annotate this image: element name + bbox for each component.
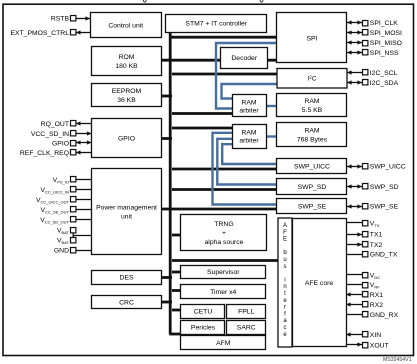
- svg-text:SWP_UICC: SWP_UICC: [370, 163, 406, 170]
- block EEPROM 36 KB: [92, 84, 162, 107]
- svg-text:SPI_MOSI: SPI_MOSI: [370, 30, 402, 37]
- pin RQ_OUT: [76, 123, 92, 125]
- wire bus to RAM arbiter 2: [172, 127, 232, 130]
- svg-text:i: i: [284, 277, 285, 283]
- svg-text:RX2: RX2: [370, 302, 383, 309]
- svg-text:GND_RX: GND_RX: [370, 312, 399, 319]
- svg-text:VRF: VRF: [370, 282, 380, 290]
- svg-text:Timer x4: Timer x4: [210, 289, 236, 296]
- block CRC: [92, 296, 162, 309]
- svg-text:FPLL: FPLL: [238, 309, 254, 316]
- svg-text:RAM: RAM: [304, 98, 319, 105]
- block CETU: [181, 305, 225, 319]
- pin GND left: [76, 250, 92, 252]
- block RAM arbiter 2: [233, 125, 267, 149]
- svg-text:RSTB: RSTB: [51, 15, 70, 22]
- svg-text:Supervisor: Supervisor: [207, 269, 240, 276]
- wire blue RAM arbiter 2 to SWP_SD: [217, 139, 277, 185]
- svg-text:r: r: [284, 305, 286, 311]
- pin EXT_PMOS_CTRL: [76, 32, 90, 34]
- pin SPI_MOSI: [347, 32, 362, 34]
- block SARC: [227, 321, 266, 335]
- pin GPIO: [76, 142, 92, 144]
- svg-text:VCC_SD_OUT: VCC_SD_OUT: [40, 217, 69, 225]
- svg-text:TRNG: TRNG: [214, 221, 233, 228]
- svg-text:SWP_SE: SWP_SE: [298, 204, 327, 211]
- svg-text:REF_CLK_REQ: REF_CLK_REQ: [20, 150, 69, 157]
- svg-text:I2C_SCL: I2C_SCL: [370, 70, 398, 77]
- block Decoder: [221, 48, 268, 69]
- svg-text:c: c: [284, 325, 287, 331]
- wire blue RAM arbiter 2 to RAM 768B: [266, 135, 277, 137]
- svg-text:RAM: RAM: [304, 128, 319, 135]
- wire PMU to bus to SWP_SE: [162, 208, 278, 211]
- svg-text:SWP_SD: SWP_SD: [298, 184, 327, 191]
- pin REF_CLK_REQ: [76, 152, 92, 154]
- svg-text:SWP_UICC: SWP_UICC: [294, 163, 330, 170]
- svg-text:GND_TX: GND_TX: [370, 252, 398, 259]
- svg-text:I2C_SDA: I2C_SDA: [370, 80, 399, 87]
- pin I2C_SCL: [347, 72, 362, 74]
- svg-text:XIN: XIN: [370, 332, 381, 339]
- wire bus to CETU: [172, 309, 181, 312]
- svg-text:180 KB: 180 KB: [115, 63, 138, 70]
- svg-text:MS32454V1: MS32454V1: [383, 357, 412, 363]
- pin VCC_UICC_OUT: [76, 199, 92, 201]
- pin VCC_SE_OUT: [76, 209, 92, 211]
- pin XOUT: [346, 344, 362, 346]
- clipped title text remnant left: [143, 0, 146, 2]
- block SPI: [277, 13, 347, 63]
- pin SPI_CLK: [347, 22, 362, 24]
- wire bus to Timer x4: [172, 289, 181, 292]
- block Supervisor: [181, 266, 266, 279]
- svg-text:SPI_NSS: SPI_NSS: [370, 50, 399, 57]
- pin VRF: [346, 284, 362, 286]
- svg-text:u: u: [283, 257, 286, 263]
- svg-text:5.5 KB: 5.5 KB: [302, 107, 323, 114]
- svg-text:VPS_IO: VPS_IO: [53, 177, 69, 185]
- svg-text:VDC: VDC: [370, 272, 380, 280]
- svg-text:36 KB: 36 KB: [117, 97, 136, 104]
- wire bus to SWP_UICC: [172, 168, 277, 171]
- svg-text:768 Bytes: 768 Bytes: [297, 137, 328, 144]
- pin RSTB: [76, 18, 90, 20]
- svg-text:ROM: ROM: [119, 54, 135, 61]
- wire main vertical bus: [169, 32, 172, 334]
- svg-text:SPI_CLK: SPI_CLK: [370, 20, 398, 27]
- block ROM 180 KB: [92, 47, 162, 76]
- svg-text:EEPROM: EEPROM: [112, 88, 142, 95]
- pin TX2: [346, 244, 362, 246]
- wire blue RAM arbiter 2 to SWP_SE: [213, 133, 278, 205]
- svg-text:F: F: [283, 230, 287, 236]
- pin RX2: [346, 304, 362, 306]
- svg-text:AFE core: AFE core: [305, 280, 334, 287]
- svg-text:CRC: CRC: [119, 300, 134, 307]
- block SWP_SD: [277, 179, 347, 195]
- clipped title text remnant right: [260, 0, 263, 2]
- pin SPI_NSS: [347, 52, 362, 54]
- pin VCC_UICC_IN: [76, 189, 92, 191]
- svg-text:VCC_SE_OUT: VCC_SE_OUT: [40, 207, 69, 215]
- wire bus to SWP_SD: [172, 188, 277, 191]
- svg-text:VTX: VTX: [370, 220, 380, 228]
- svg-text:XOUT: XOUT: [370, 342, 389, 349]
- block TRNG + alpha source: [181, 215, 267, 251]
- wire GPIO stub: [162, 137, 173, 140]
- svg-text:alpha source: alpha source: [205, 239, 244, 246]
- svg-text:I2C: I2C: [307, 74, 316, 82]
- svg-text:Pericles: Pericles: [191, 324, 216, 331]
- wire ROM to Decoder to SPI: [162, 59, 278, 62]
- pin VBAT 2: [71, 238, 76, 243]
- block GPIO: [92, 119, 162, 158]
- pin VPS_IO: [76, 179, 92, 181]
- svg-text:CETU: CETU: [194, 309, 213, 316]
- pin SWP_UICC: [347, 166, 362, 168]
- svg-text:E: E: [283, 237, 287, 243]
- svg-text:RAM: RAM: [241, 99, 256, 106]
- wire bus to I2C: [172, 73, 277, 76]
- svg-text:SPI: SPI: [307, 35, 318, 42]
- wire blue SPI to RAM arbiter 1: [216, 43, 277, 109]
- svg-text:SWP_SE: SWP_SE: [370, 204, 399, 211]
- svg-text:SWP_SD: SWP_SD: [370, 184, 399, 191]
- block AFM: [181, 336, 266, 350]
- svg-text:+: +: [222, 230, 226, 237]
- pin SWP_SE: [347, 206, 362, 208]
- svg-text:EXT_PMOS_CTRL: EXT_PMOS_CTRL: [10, 30, 69, 37]
- svg-text:VBAT: VBAT: [57, 237, 70, 245]
- pin VCC_SD_IN: [76, 133, 92, 135]
- svg-text:Power management: Power management: [96, 204, 157, 211]
- pin GND_TX: [346, 254, 362, 256]
- block Pericles: [181, 321, 225, 335]
- wire blue RAM arbiter 2 to SWP_UICC: [222, 144, 277, 164]
- svg-text:DES: DES: [120, 275, 134, 282]
- pin I2C_SDA: [347, 82, 362, 84]
- svg-text:TX1: TX1: [370, 232, 383, 239]
- svg-text:GPIO: GPIO: [118, 136, 135, 143]
- block RAM arbiter 1: [233, 95, 267, 117]
- wire bus to Supervisor: [172, 271, 181, 274]
- wire CRC stub: [162, 301, 173, 304]
- block RAM 768 Bytes: [277, 123, 347, 147]
- block AFE core: [293, 219, 347, 347]
- wire blue RAM arbiter 1 to RAM 5.5KB: [266, 105, 277, 107]
- block RAM 5.5 KB: [277, 94, 347, 117]
- wire bus to AFE bus interface: [172, 259, 278, 262]
- wire blue I2C to RAM arbiter 1: [222, 84, 278, 99]
- wire bus elbow to AFM: [169, 333, 181, 336]
- pin XIN: [346, 334, 362, 336]
- svg-text:AFM: AFM: [216, 340, 231, 347]
- wire bus to RAM arbiter 1: [172, 112, 232, 115]
- block AFE bus interface: [278, 218, 292, 347]
- block SWP_SE: [277, 199, 347, 214]
- block STM7 + IT controller: [166, 15, 267, 33]
- pin VTX: [346, 222, 362, 224]
- svg-text:Control unit: Control unit: [108, 23, 143, 30]
- wire bus to SPI: [171, 36, 277, 39]
- block I2C: [277, 69, 347, 89]
- svg-text:unit: unit: [121, 213, 132, 220]
- svg-text:s: s: [284, 264, 287, 270]
- svg-text:SPI_MISO: SPI_MISO: [370, 40, 402, 47]
- pin VDC: [346, 274, 362, 276]
- pin SWP_SD: [347, 186, 362, 188]
- svg-text:SARC: SARC: [237, 324, 256, 331]
- svg-text:VCC_UICC_IN: VCC_UICC_IN: [40, 187, 69, 195]
- svg-text:GND: GND: [54, 247, 69, 254]
- pin VBAT 1: [72, 230, 74, 240]
- block Timer x4: [181, 285, 266, 299]
- block Control unit: [91, 13, 162, 38]
- svg-text:VBAT: VBAT: [57, 227, 70, 235]
- svg-text:Decoder: Decoder: [231, 55, 257, 62]
- block SWP_UICC: [277, 159, 347, 174]
- svg-text:arbiter: arbiter: [239, 107, 259, 114]
- pin GND_RX: [346, 314, 362, 316]
- svg-text:VCC_UICC_OUT: VCC_UICC_OUT: [36, 197, 70, 205]
- svg-text:STM7 + IT controller: STM7 + IT controller: [185, 20, 247, 27]
- block FPLL: [227, 305, 266, 319]
- pin RX1: [346, 294, 362, 296]
- svg-text:n: n: [283, 284, 286, 290]
- pin SPI_MISO: [347, 42, 362, 44]
- svg-text:TX2: TX2: [370, 242, 383, 249]
- svg-text:RAM: RAM: [241, 130, 256, 137]
- svg-text:RQ_OUT: RQ_OUT: [41, 121, 69, 128]
- block DES: [92, 271, 162, 285]
- pin TX1: [346, 234, 362, 236]
- wire DES stub: [162, 276, 173, 279]
- block Power management unit: [92, 169, 162, 255]
- svg-text:arbiter: arbiter: [239, 138, 259, 145]
- pin VCC_SD_OUT: [76, 219, 92, 221]
- svg-text:GPIO: GPIO: [52, 140, 69, 147]
- wire bus to TRNG: [172, 234, 181, 237]
- wire EEPROM stub: [162, 95, 173, 98]
- svg-text:A: A: [283, 223, 287, 229]
- svg-text:VCC_SD_IN: VCC_SD_IN: [31, 131, 69, 138]
- svg-text:RX1: RX1: [370, 292, 383, 299]
